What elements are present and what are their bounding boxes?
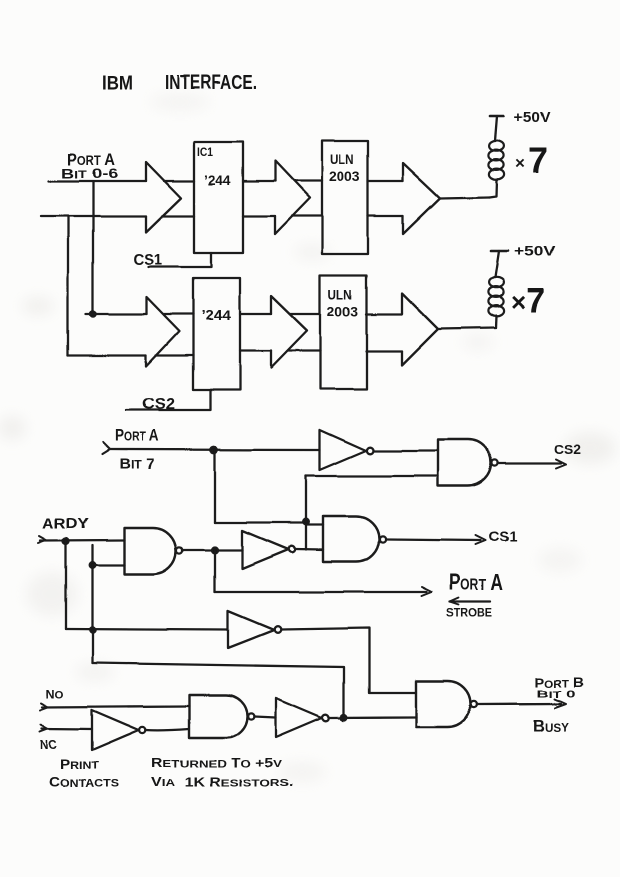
input arrow NO: [40, 703, 48, 710]
+50V rail bar 2: [491, 250, 508, 253]
svg-text:ULN: ULN: [328, 287, 352, 302]
svg-text:NO: NO: [46, 687, 64, 701]
svg-text:PRINT: PRINT: [60, 757, 99, 772]
wire: arrow B2 to ULN2 bottom: [288, 350, 320, 352]
wire: IC1 to arrow A2 top: [243, 180, 275, 182]
buffer arrow A3: [403, 163, 440, 234]
wire: arrow A2 to ULN bottom: [292, 215, 322, 217]
wire: G8 out to inverter G9: [255, 717, 277, 718]
node: NAND G3 lower input junction: [90, 562, 96, 568]
node: row2 top junction: [90, 311, 95, 316]
svg-text:BIT 7: BIT 7: [119, 456, 155, 473]
node: join at bottom: [341, 715, 347, 721]
svg-text:CS2: CS2: [554, 442, 581, 457]
svg-text:INTERFACE.: INTERFACE.: [165, 72, 257, 94]
NAND G5 (CS1): [323, 516, 379, 562]
wire: horiz y523: [215, 522, 306, 524]
wire: IC1 to arrow A2 bottom: [243, 215, 275, 217]
strobe label arrow: [450, 601, 490, 603]
wire: x92 across to x344 and down: [93, 663, 345, 717]
CS1 tie to U1: [148, 253, 211, 267]
wire: 244 to arrow B2 top: [240, 313, 271, 315]
wire: NAND CS2 lower input: [306, 475, 438, 477]
wire: ULN2 to arrow B3 top: [366, 313, 402, 315]
node: strobe junction: [212, 548, 218, 554]
NAND G3 (ARDY): [124, 528, 176, 574]
wire: arrow B1 to 244 top: [163, 313, 193, 315]
inverter G6: [228, 611, 274, 648]
IC U3 '244: [193, 278, 240, 390]
input arrow ARDY: [38, 536, 46, 543]
wire: arrow B3 to coil L2: [438, 328, 496, 329]
svg-text:CONTACTS: CONTACTS: [49, 775, 119, 790]
svg-text:VIA 1K RESISTORS.: VIA 1K RESISTORS.: [151, 775, 293, 789]
wire: G1 out to NAND CS2: [374, 450, 439, 452]
wire: NAND CS1 upper input: [306, 524, 323, 526]
svg-text:CS2: CS2: [142, 396, 175, 413]
wire: bit7 line: [110, 448, 320, 451]
wire: 244 to arrow B2 bottom: [240, 350, 271, 352]
node: bit7 junction: [211, 447, 217, 453]
svg-text:+50V: +50V: [514, 110, 550, 126]
wire: G4 out to NAND CS1: [295, 548, 323, 551]
input arrow Port A bit7: [102, 443, 110, 455]
buffer arrow B3: [402, 293, 438, 365]
NAND G8: [189, 695, 248, 738]
inverter G7: [92, 710, 139, 750]
wire: ULN to arrow A3 top: [368, 180, 403, 182]
wire: x66 to inverter G6: [66, 629, 228, 630]
svg-text:BIT 0-6: BIT 0-6: [61, 165, 118, 181]
IC U1 '244: [194, 142, 243, 253]
wire: arrow A2 to ULN top: [294, 180, 322, 182]
vertical from bottom bus down (left): [67, 217, 69, 355]
+50V rail bar 1: [490, 115, 504, 118]
wire: G9 out to NAND G10 lower input: [329, 716, 416, 719]
wire: Port A top bus: [49, 180, 146, 182]
buffer arrow A2: [275, 161, 310, 234]
svg-text:PORT A: PORT A: [115, 426, 159, 445]
wire: G3 out: [183, 549, 242, 551]
svg-text:’244: ’244: [201, 307, 231, 323]
wire: G7 out to NAND G8: [146, 729, 189, 730]
node: x306 junction: [303, 519, 309, 525]
wire: ULN to arrow A3 bottom: [368, 215, 403, 217]
IC U4 ULN2003: [320, 275, 367, 389]
wire: CS1 output: [386, 539, 481, 540]
svg-text:×7: ×7: [511, 282, 545, 320]
buffer arrow B1: [146, 297, 179, 366]
svg-text:CS1: CS1: [489, 529, 517, 545]
wire: ARDY line: [40, 539, 124, 542]
inductor L1: [489, 179, 497, 197]
node: ARDY junction: [63, 538, 69, 544]
wire: vertical x92 upper: [91, 545, 93, 565]
inverter G1: [320, 430, 366, 470]
svg-text:+50V: +50V: [514, 243, 556, 259]
wire: NO line: [42, 706, 189, 707]
wire: vertical x92 lower: [91, 565, 93, 663]
wire: Port A bottom bus: [41, 215, 146, 217]
svg-text:ULN: ULN: [330, 152, 354, 167]
wire: NC line: [42, 727, 92, 730]
buffer arrow A1: [146, 162, 181, 232]
wire: ULN2 to arrow B3 bottom: [366, 350, 402, 352]
wire: G6 out, down to NAND G10 top input: [281, 628, 416, 693]
svg-text:RETURNED TO +5V: RETURNED TO +5V: [151, 756, 282, 770]
svg-text:IBM: IBM: [102, 73, 133, 94]
wire: vertical x66: [65, 541, 67, 629]
vertical from top bus down (left): [92, 182, 94, 313]
wire: arrow B1 to 244 bottom: [156, 354, 193, 356]
node: cross x92: [90, 627, 95, 632]
svg-text:ARDY: ARDY: [42, 515, 89, 532]
IC U2 ULN2003: [322, 141, 368, 254]
wire: CS2 output: [498, 462, 561, 464]
inductor L2: [495, 316, 498, 328]
wire: row2 bottom bus: [68, 354, 146, 356]
svg-text:STROBE: STROBE: [447, 608, 492, 620]
wire: vertical x306: [305, 476, 307, 550]
wire: vertical from bit7 node: [214, 450, 216, 523]
svg-text:BIT 0: BIT 0: [537, 688, 576, 700]
input arrow NC: [40, 725, 48, 732]
svg-text:’244: ’244: [204, 172, 231, 188]
svg-text:2003: 2003: [329, 168, 360, 184]
wire: strobe line: [215, 591, 427, 593]
buffer arrow B2: [271, 296, 307, 368]
wire: arrow A3 to coil L1: [440, 197, 489, 198]
NAND G10 (Busy): [416, 681, 471, 727]
CS2 tie to U3: [126, 390, 211, 410]
inverter G4: [242, 531, 288, 569]
wire: arrow A1 to IC1 top: [164, 180, 194, 182]
NAND G2 (CS2): [438, 440, 491, 486]
svg-text:2003: 2003: [327, 303, 358, 319]
svg-text:CS1: CS1: [133, 252, 162, 269]
svg-text:IC1: IC1: [197, 145, 213, 159]
wire: arrow A1 to IC1 bottom: [162, 215, 194, 217]
svg-text:NC: NC: [40, 738, 57, 752]
wire: arrow B2 to ULN2 top: [290, 313, 320, 315]
inverter G9: [276, 698, 322, 737]
wire: Busy output: [478, 702, 562, 705]
wire: to NAND G3 lower input: [93, 564, 125, 566]
wire: row2 top bus: [86, 313, 146, 315]
wire: strobe vertical: [214, 551, 216, 593]
